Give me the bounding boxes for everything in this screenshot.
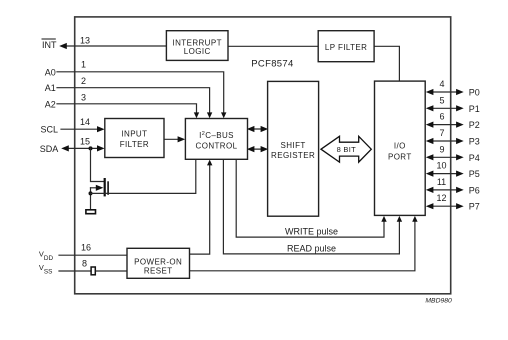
svg-text:VDD: VDD [39, 249, 54, 262]
junction dot SDA node [89, 146, 93, 150]
svg-text:15: 15 [80, 137, 90, 147]
svg-text:A0: A0 [45, 67, 56, 77]
svg-text:LOGIC: LOGIC [184, 47, 211, 56]
arrowhead READ into I/O port bottom [397, 216, 402, 222]
svg-text:LP FILTER: LP FILTER [325, 43, 367, 52]
wire LP FILTER to I/O PORT top [374, 46, 399, 81]
svg-text:PORT: PORT [388, 153, 412, 162]
svg-text:16: 16 [81, 243, 91, 253]
arrowhead A0 into I2C control [221, 112, 226, 118]
svg-text:1: 1 [81, 60, 86, 70]
svg-text:6: 6 [439, 112, 444, 122]
wire READ pulse [223, 159, 399, 254]
svg-text:INT: INT [42, 40, 57, 50]
transistor Q1 channel bar [107, 181, 109, 195]
wire I2C to SHIFT REGISTER upper double arrow [250, 128, 266, 130]
wire SCL into INPUT FILTER [61, 128, 100, 130]
svg-text:13: 13 [80, 36, 90, 46]
arrowhead A2 into I2C control [194, 112, 199, 118]
svg-text:MBD980: MBD980 [425, 297, 452, 304]
svg-text:3: 3 [81, 93, 86, 103]
box I/O PORT [375, 81, 426, 215]
arrowhead into I2C control left [178, 136, 186, 142]
svg-text:P3: P3 [469, 137, 480, 147]
svg-text:A1: A1 [45, 83, 56, 93]
svg-text:8 BIT: 8 BIT [337, 145, 357, 154]
svg-text:REGISTER: REGISTER [271, 151, 315, 160]
svg-text:I2C–BUS: I2C–BUS [199, 131, 234, 140]
arrowheads P0-P7 right (out) [456, 89, 464, 209]
junction dot source node [89, 191, 93, 195]
box POWER-ON RESET [127, 248, 190, 278]
wire A0 [57, 72, 224, 113]
svg-text:2: 2 [81, 76, 86, 86]
svg-text:P7: P7 [469, 202, 480, 212]
svg-text:READ pulse: READ pulse [287, 243, 336, 253]
svg-text:WRITE pulse: WRITE pulse [285, 226, 338, 236]
arrowheads P0-P7 left (into I/O port) [426, 89, 434, 209]
arrowhead substrate into channel [96, 185, 104, 191]
wire substrate arrow of Q1 [91, 187, 99, 189]
wire INT from pin to INTERRUPT LOGIC [64, 45, 166, 47]
box SHIFT REGISTER [268, 81, 319, 216]
wire substrate down to ground [90, 188, 92, 209]
svg-text:P5: P5 [469, 169, 480, 179]
svg-text:12: 12 [436, 193, 446, 203]
arrowhead INT out [59, 43, 67, 49]
box I2C-BUS CONTROL [185, 119, 247, 160]
svg-text:POWER-ON: POWER-ON [134, 257, 182, 266]
svg-text:14: 14 [80, 117, 90, 127]
svg-text:SDA: SDA [40, 144, 59, 154]
svg-text:11: 11 [437, 177, 446, 187]
svg-text:FILTER: FILTER [120, 140, 149, 149]
svg-text:7: 7 [439, 128, 444, 138]
box LP FILTER [318, 31, 374, 62]
svg-text:A2: A2 [45, 99, 56, 109]
svg-text:SCL: SCL [41, 125, 59, 135]
wire VSS to substrate symbol [59, 270, 90, 272]
svg-text:P0: P0 [469, 88, 480, 98]
arrowhead VSS line into I/O port bottom [412, 216, 417, 222]
svg-text:P2: P2 [469, 120, 480, 130]
svg-text:I/O: I/O [394, 142, 406, 151]
arrowhead SDA left [61, 145, 69, 151]
svg-text:5: 5 [439, 95, 444, 105]
transistor Q1 gate bar [104, 178, 106, 196]
svg-text:10: 10 [436, 161, 446, 171]
wire WRITE pulse [236, 159, 384, 237]
svg-text:VSS: VSS [39, 263, 52, 276]
arrowhead SCL [97, 126, 105, 132]
box INTERRUPT LOGIC [166, 31, 228, 61]
wire VDD to POWER-ON RESET [59, 254, 127, 256]
chip outer border [75, 17, 451, 294]
wire VSS to POWER-ON RESET [96, 270, 127, 272]
box INPUT FILTER [105, 119, 164, 158]
svg-text:P6: P6 [469, 185, 480, 195]
svg-text:8: 8 [82, 259, 87, 269]
wire INPUT FILTER to I2C control [164, 138, 181, 140]
wire SDA to transistor gate [91, 148, 104, 181]
svg-text:INPUT: INPUT [121, 130, 147, 139]
ground [86, 210, 96, 214]
svg-text:P1: P1 [469, 104, 480, 114]
wire POWER-ON RESET to I2C control [190, 166, 210, 255]
arrowhead POR into I2C control bottom [207, 160, 212, 166]
pin lines P0-P7 [429, 92, 460, 206]
svg-text:9: 9 [439, 144, 444, 154]
wire I2C to SHIFT REGISTER lower double arrow [250, 148, 266, 150]
svg-text:CONTROL: CONTROL [196, 141, 238, 150]
wire INTERRUPT LOGIC to LP FILTER [228, 45, 318, 47]
wire A1 [57, 88, 210, 113]
arrowhead SDA right into INPUT FILTER [97, 145, 105, 151]
substrate/fuse symbol on VSS [91, 267, 95, 275]
svg-text:RESET: RESET [144, 267, 173, 276]
svg-text:P4: P4 [469, 153, 480, 163]
wire VSS continuation to I/O PORT [190, 221, 415, 271]
svg-text:SHIFT: SHIFT [281, 141, 306, 150]
wire Q1 source to I2C control [91, 159, 196, 193]
wire SDA bidirectional [66, 147, 100, 149]
svg-text:PCF8574: PCF8574 [251, 58, 293, 69]
wire A2 [57, 104, 197, 113]
arrowhead A1 into I2C control [207, 112, 212, 118]
8 BIT bus arrow [321, 136, 371, 162]
svg-text:4: 4 [439, 79, 444, 89]
arrowhead WRITE into I/O port bottom [381, 216, 386, 222]
